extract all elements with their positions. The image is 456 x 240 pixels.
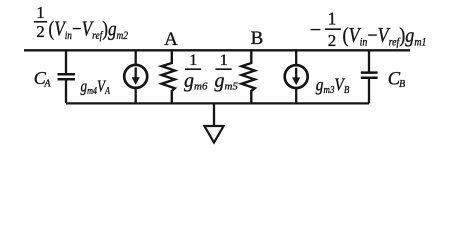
svg-text:A: A	[164, 29, 178, 50]
resistor 1/gm5	[242, 50, 255, 103]
svg-text:1: 1	[220, 52, 228, 69]
svg-text:2: 2	[36, 22, 45, 41]
svg-text:1: 1	[36, 3, 45, 22]
svg-text:B: B	[251, 28, 264, 49]
current source gm4VA	[124, 50, 147, 103]
svg-text:1: 1	[189, 52, 197, 69]
svg-text:(Vin−Vref)gm2: (Vin−Vref)gm2	[49, 17, 129, 42]
ground	[204, 103, 223, 143]
svg-text:(Vin−Vref)gm1: (Vin−Vref)gm1	[343, 23, 427, 48]
current source gm3VB	[285, 50, 308, 103]
svg-text:−: −	[310, 18, 322, 42]
resistor 1/gm6	[162, 50, 175, 103]
value label 1/gm6	[184, 52, 208, 92]
svg-text:1: 1	[328, 8, 337, 28]
label source right: -1/2 (Vin-Vref)gm1	[310, 8, 427, 50]
capacitor CB	[361, 50, 378, 103]
capacitor CA	[58, 50, 76, 103]
wire top rail	[24, 49, 410, 51]
svg-text:2: 2	[328, 31, 337, 50]
value label 1/gm5	[215, 52, 239, 92]
label source left: 1/2 (Vin-Vref)gm2	[34, 3, 128, 42]
wire bottom rail	[66, 102, 369, 104]
